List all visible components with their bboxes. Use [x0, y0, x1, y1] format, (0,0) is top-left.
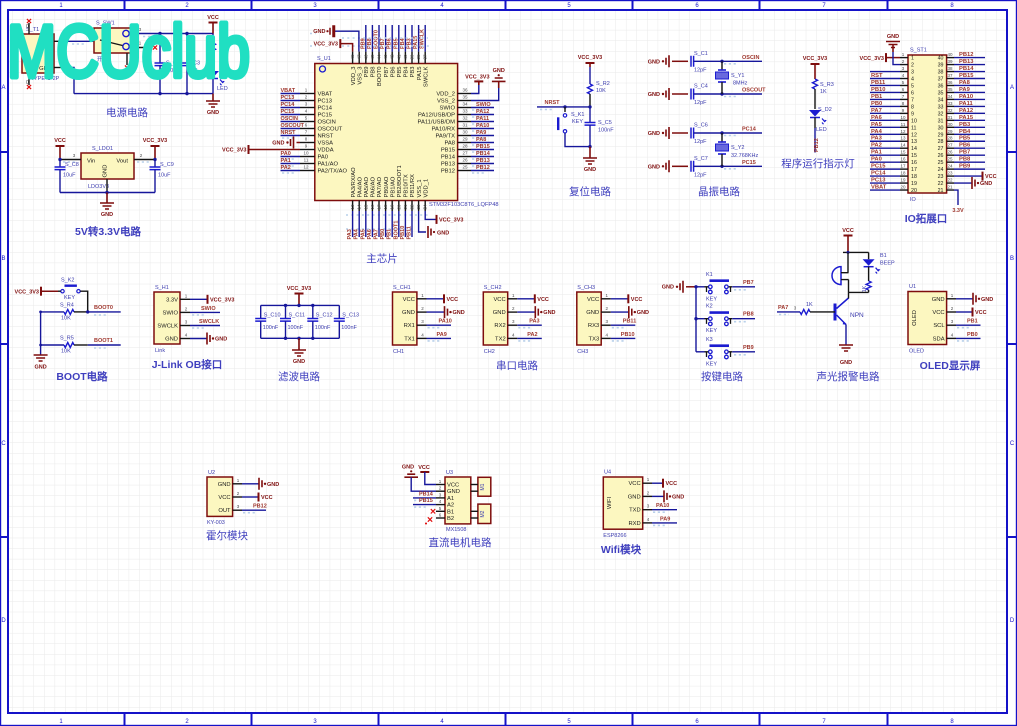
- svg-text:霍尔模块: 霍尔模块: [206, 529, 248, 542]
- svg-text:29: 29: [947, 129, 953, 134]
- svg-text:37: 37: [947, 73, 953, 78]
- wire net PB15: [413, 504, 436, 506]
- svg-text:B1: B1: [447, 509, 454, 515]
- U1 pin 44 BOOT0: [378, 52, 380, 64]
- svg-text:S_Y2: S_Y2: [731, 145, 744, 151]
- wire net PC14: [722, 132, 762, 134]
- svg-text:PB4: PB4: [959, 129, 971, 135]
- CH2 pin3 wire PA3: [517, 324, 542, 326]
- svg-text:晶振电路: 晶振电路: [698, 185, 740, 198]
- U1 pin 7 NRST: [300, 135, 315, 137]
- svg-text:8: 8: [911, 104, 914, 110]
- svg-text:PA3: PA3: [871, 136, 883, 142]
- svg-text:PB7: PB7: [959, 150, 970, 156]
- svg-text:VCC: VCC: [666, 481, 678, 487]
- U1 pin 40 PB4: [404, 52, 406, 64]
- svg-text:25: 25: [462, 165, 468, 170]
- resistor R5 10K: [41, 344, 64, 346]
- svg-text:PA0: PA0: [318, 155, 329, 161]
- svg-text:12pF: 12pF: [694, 100, 707, 106]
- U1 pin 37 SWCLK: [424, 52, 426, 64]
- svg-text:PB3: PB3: [959, 122, 971, 128]
- svg-text:PA8: PA8: [444, 141, 455, 147]
- U2 pin2 wire VCC: [242, 496, 258, 498]
- resistor R2: [589, 67, 591, 84]
- svg-text:12pF: 12pF: [694, 67, 707, 73]
- U1 pin 21 PB10/TX: [404, 201, 406, 212]
- H1 pin1 wire VCC_3V3: [190, 298, 207, 300]
- svg-text:39: 39: [938, 63, 944, 69]
- svg-text:KEY: KEY: [706, 328, 717, 334]
- U1 pin 41 PB5: [398, 52, 400, 64]
- svg-text:VCC_3V3: VCC_3V3: [314, 42, 338, 48]
- ST1 pin 33: [947, 105, 954, 107]
- svg-text:S_C12: S_C12: [316, 313, 333, 319]
- svg-text:GND: GND: [672, 494, 684, 500]
- capacitor S_C11 100nF: [285, 305, 287, 318]
- svg-text:GND: GND: [887, 34, 899, 40]
- svg-text:RX1: RX1: [404, 323, 415, 329]
- H1 pin3 wire SWCLK: [190, 325, 220, 327]
- svg-text:45: 45: [370, 54, 375, 60]
- svg-text:1K: 1K: [806, 302, 813, 308]
- svg-text:LDO3V3: LDO3V3: [88, 184, 109, 190]
- svg-text:17: 17: [377, 204, 382, 210]
- capacitor C5: [589, 107, 591, 123]
- svg-text:100nF: 100nF: [263, 325, 279, 331]
- svg-text:按键电路: 按键电路: [701, 370, 743, 383]
- svg-text:OUT: OUT: [218, 508, 231, 514]
- svg-text:1K: 1K: [820, 89, 827, 95]
- svg-text:17: 17: [900, 164, 906, 169]
- svg-text:PB11: PB11: [623, 319, 636, 325]
- svg-text:PA3: PA3: [529, 319, 539, 325]
- svg-text:PA0: PA0: [871, 157, 882, 163]
- ST1 pin 26: [947, 154, 954, 156]
- svg-text:复位电路: 复位电路: [569, 185, 611, 198]
- svg-text:Wifi模块: Wifi模块: [601, 543, 642, 556]
- svg-text:OSCOUT: OSCOUT: [318, 127, 343, 133]
- U1 pin 39 PB3: [411, 52, 413, 64]
- svg-text:PB6: PB6: [387, 38, 393, 49]
- U1 pin 36 VDD_2: [458, 93, 471, 95]
- ST1 pin 20: [900, 189, 908, 191]
- svg-text:44: 44: [377, 54, 382, 60]
- wire net PB9: [732, 351, 755, 353]
- svg-text:10: 10: [303, 151, 309, 156]
- svg-text:PA2: PA2: [871, 143, 882, 149]
- svg-text:RX2: RX2: [494, 323, 505, 329]
- svg-text:PA5/AO: PA5/AO: [364, 176, 370, 197]
- svg-text:VBAT: VBAT: [281, 88, 296, 94]
- svg-text:KEY: KEY: [706, 296, 717, 302]
- svg-text:32.768KHz: 32.768KHz: [731, 153, 758, 159]
- svg-text:VCC: VCC: [403, 297, 415, 303]
- ST1 pin 8: [900, 105, 908, 107]
- svg-text:PA5: PA5: [871, 122, 883, 128]
- svg-text:28: 28: [947, 136, 953, 141]
- svg-text:B: B: [1, 256, 5, 262]
- svg-text:GND: GND: [402, 310, 415, 316]
- CH1 pin2 wire GND: [427, 311, 445, 313]
- svg-text:PA11: PA11: [959, 101, 974, 107]
- svg-text:39: 39: [947, 59, 953, 64]
- svg-text:4: 4: [911, 77, 914, 83]
- module U1 OLED body: [908, 292, 947, 345]
- svg-text:主芯片: 主芯片: [366, 252, 398, 265]
- CH2 pin1 wire VCC: [517, 298, 534, 300]
- svg-text:32: 32: [462, 116, 468, 121]
- wire K1 to C5 bottom: [565, 133, 590, 147]
- U1 pin 48 VDD_3: [352, 52, 354, 64]
- ST1 pin 11: [900, 126, 908, 128]
- svg-text:KEY: KEY: [64, 295, 75, 301]
- OLED pin3 wire PB1: [956, 324, 981, 326]
- H1 pin 3 SWCLK: [180, 325, 190, 327]
- U1 pin 24 VDD_1: [424, 201, 426, 212]
- module U2 body: [207, 477, 233, 516]
- svg-text:PB8: PB8: [959, 157, 971, 163]
- svg-text:GND: GND: [453, 310, 465, 316]
- svg-text:SCL: SCL: [933, 323, 945, 329]
- svg-text:NPN: NPN: [850, 312, 864, 319]
- svg-text:GND: GND: [215, 337, 227, 343]
- U1 pin 47 VSS_3: [358, 52, 360, 64]
- svg-text:SWIO: SWIO: [476, 102, 491, 108]
- svg-text:PC14: PC14: [318, 106, 333, 112]
- CH2 pin 4 TX2: [508, 337, 518, 339]
- svg-text:PB1: PB1: [387, 229, 393, 240]
- svg-text:A: A: [1010, 85, 1014, 91]
- power GND top of ST1: [886, 42, 900, 48]
- svg-text:OLED: OLED: [909, 349, 924, 355]
- svg-text:PA2/TX/AO: PA2/TX/AO: [318, 169, 348, 175]
- svg-text:S_C1: S_C1: [694, 51, 708, 57]
- ST1 pin21 3.3V wire: [954, 190, 958, 205]
- ST1 pin 36: [947, 84, 954, 86]
- svg-text:VCC_3V3: VCC_3V3: [222, 148, 246, 154]
- U1 pin 45 PB8: [371, 52, 373, 64]
- svg-text:24: 24: [938, 167, 944, 173]
- power VCC_3V3 below U1: [436, 215, 438, 224]
- svg-text:PB15: PB15: [419, 498, 433, 504]
- svg-text:S_C13: S_C13: [342, 313, 359, 319]
- svg-text:PA10: PA10: [656, 503, 669, 509]
- svg-text:VCC: VCC: [54, 138, 66, 144]
- svg-text:GND: GND: [493, 310, 506, 316]
- svg-text:VBAT: VBAT: [318, 92, 333, 98]
- wire U1 VDD_1 to VCC_3V3: [425, 211, 436, 219]
- svg-text:PA8: PA8: [959, 80, 971, 86]
- svg-text:VDD_2: VDD_2: [436, 92, 455, 98]
- ST1 pin 29: [947, 133, 954, 135]
- svg-text:PA3: PA3: [347, 229, 353, 239]
- svg-text:程序运行指示灯: 程序运行指示灯: [781, 157, 855, 170]
- svg-text:S_R2: S_R2: [596, 81, 610, 87]
- svg-text:48: 48: [350, 54, 355, 60]
- svg-text:CH3: CH3: [577, 349, 588, 355]
- svg-text:GND: GND: [313, 29, 325, 35]
- svg-text:PB4: PB4: [404, 66, 410, 78]
- svg-text:100nF: 100nF: [315, 325, 331, 331]
- filter GND: [298, 338, 300, 350]
- svg-text:PB1: PB1: [967, 319, 978, 325]
- svg-text:39: 39: [410, 54, 415, 60]
- svg-text:12pF: 12pF: [694, 139, 707, 145]
- U1 pin 25 PB12: [458, 170, 471, 172]
- svg-text:PA12: PA12: [476, 109, 489, 115]
- svg-text:VCC: VCC: [628, 481, 640, 487]
- svg-text:PA5: PA5: [360, 229, 366, 239]
- svg-text:U4: U4: [604, 470, 611, 476]
- svg-text:PB8: PB8: [371, 67, 377, 78]
- header H1 body: [154, 292, 180, 344]
- ST1 pin 22: [947, 182, 954, 184]
- H1 pin 1 3.3V: [180, 298, 190, 300]
- svg-text:27: 27: [462, 151, 468, 156]
- svg-text:S_C6: S_C6: [694, 123, 708, 129]
- capacitor C8: [59, 160, 61, 168]
- svg-text:VDD_1: VDD_1: [423, 179, 429, 198]
- svg-text:31: 31: [947, 115, 953, 120]
- crystal Y1 8MHz: [721, 61, 723, 70]
- svg-text:PA9: PA9: [476, 130, 486, 136]
- U4 pin 1 VCC: [643, 482, 652, 484]
- svg-text:PC15: PC15: [318, 113, 333, 119]
- svg-text:PC15: PC15: [742, 160, 756, 166]
- ST1 pin 21: [947, 189, 954, 191]
- U1 pin 3 PC14: [300, 107, 315, 109]
- alarm top wire: [843, 251, 869, 253]
- U1 pin 11 PA1/AO: [300, 163, 315, 165]
- svg-text:PA2: PA2: [281, 165, 291, 171]
- bottom rail wire: [74, 93, 213, 95]
- ST1 pin 32: [947, 112, 954, 114]
- svg-text:GND: GND: [493, 68, 505, 74]
- svg-text:29: 29: [462, 137, 468, 142]
- svg-text:SWCLK: SWCLK: [199, 319, 219, 325]
- U3 pin 4 A2: [436, 504, 445, 506]
- svg-text:S_R4: S_R4: [60, 303, 74, 309]
- wire net BOOT1: [88, 344, 121, 346]
- svg-text:PB3: PB3: [407, 38, 413, 49]
- svg-text:PB7: PB7: [384, 67, 390, 78]
- svg-text:D: D: [1010, 618, 1015, 624]
- svg-text:D: D: [1, 618, 6, 624]
- svg-text:GND: GND: [272, 141, 284, 147]
- svg-text:LED: LED: [816, 127, 827, 133]
- svg-text:VCC: VCC: [418, 465, 430, 471]
- U1 pin 14 PA4/AO: [358, 201, 360, 212]
- T1 shield pin stub top: [28, 23, 30, 34]
- svg-text:PB5: PB5: [397, 67, 403, 78]
- ST1 pin 18: [900, 175, 908, 177]
- power GND below U1: [428, 226, 431, 238]
- svg-text:PB11: PB11: [407, 226, 413, 239]
- U4 pin 2 GND: [643, 495, 652, 497]
- U3 pin 6 B2: [436, 517, 445, 519]
- ST1 pin 14: [900, 147, 908, 149]
- U1 pin 28 PB15: [458, 149, 471, 151]
- svg-text:滤波电路: 滤波电路: [278, 370, 320, 383]
- svg-text:GND: GND: [207, 110, 219, 116]
- U1 pin 15 PA5/AO: [365, 201, 367, 212]
- capacitor C2: [159, 34, 161, 64]
- ST1 pin 13: [900, 140, 908, 142]
- svg-text:VCC: VCC: [447, 297, 459, 303]
- keys GND rail: [695, 287, 697, 352]
- module U3 body: [445, 477, 471, 524]
- U4 pin3 wire PA10: [652, 509, 677, 511]
- capacitor S_C6 12pF: [691, 128, 694, 139]
- svg-text:VCC: VCC: [447, 483, 459, 489]
- svg-text:S_Y1: S_Y1: [731, 73, 744, 79]
- svg-text:47: 47: [357, 54, 362, 60]
- svg-text:10uF: 10uF: [158, 173, 171, 179]
- svg-text:13: 13: [900, 136, 906, 141]
- svg-text:BOOT0: BOOT0: [94, 305, 113, 311]
- svg-text:PB12: PB12: [441, 169, 455, 175]
- svg-text:B2: B2: [447, 516, 454, 522]
- svg-text:23: 23: [947, 171, 953, 176]
- svg-text:GND: GND: [637, 310, 649, 316]
- svg-text:GND: GND: [293, 359, 305, 365]
- svg-text:PC15: PC15: [281, 109, 295, 115]
- power circuit GND: [212, 94, 214, 101]
- svg-text:GND: GND: [648, 59, 660, 65]
- svg-text:12: 12: [303, 165, 309, 170]
- svg-text:VSSA: VSSA: [318, 141, 334, 147]
- svg-text:OSCIN: OSCIN: [318, 120, 336, 126]
- ST1 pin 3: [900, 71, 908, 73]
- crystal Y2 32.768KHz: [721, 133, 723, 142]
- wires U3 to M1: [471, 484, 478, 486]
- svg-text:MX1508: MX1508: [446, 527, 467, 533]
- H1 pin2 wire SWIO: [190, 311, 220, 313]
- svg-text:BOOT0: BOOT0: [377, 67, 383, 87]
- U1 pin 2 PC13: [300, 100, 315, 102]
- wire emitter to GND: [845, 325, 847, 346]
- svg-text:VCC_3V3: VCC_3V3: [860, 56, 884, 62]
- svg-text:36: 36: [938, 83, 944, 89]
- ST1 pin 17: [900, 168, 908, 170]
- ST1 pin 19: [900, 182, 908, 184]
- U1 pin 32 PA11/USB/DM: [458, 121, 471, 123]
- CH2 pin 3 RX2: [508, 324, 518, 326]
- svg-text:37: 37: [938, 77, 944, 83]
- svg-text:6: 6: [911, 90, 914, 96]
- svg-text:PB3: PB3: [410, 67, 416, 78]
- svg-text:GND: GND: [662, 285, 674, 291]
- motor connector M1: [478, 477, 491, 496]
- svg-text:A: A: [1, 85, 5, 91]
- ST1 pin 4: [900, 78, 908, 80]
- svg-text:37: 37: [423, 54, 428, 60]
- CH3 pin 4 TX3: [601, 337, 611, 339]
- svg-text:VBAT: VBAT: [871, 185, 887, 191]
- U1 pin 9 VDDA: [300, 149, 315, 151]
- U3 pin 3 A1: [436, 497, 445, 499]
- motor connector M2: [478, 504, 491, 523]
- CH2 pin 2 GND: [508, 311, 518, 313]
- svg-text:38: 38: [947, 66, 953, 71]
- boot GND: [40, 345, 42, 355]
- svg-text:VCC: VCC: [975, 310, 987, 316]
- svg-text:TXD: TXD: [629, 508, 641, 514]
- U4 pin 4 RXD: [643, 522, 652, 524]
- svg-text:14: 14: [357, 204, 362, 210]
- svg-text:5: 5: [911, 83, 914, 89]
- U1 pin 29 PA8: [458, 142, 471, 144]
- svg-text:VCC: VCC: [493, 297, 505, 303]
- svg-text:5V转3.3V电路: 5V转3.3V电路: [75, 225, 141, 238]
- svg-text:28: 28: [462, 144, 468, 149]
- svg-text:PC14: PC14: [742, 127, 757, 133]
- svg-text:PA1: PA1: [281, 158, 291, 164]
- svg-text:PB12: PB12: [476, 165, 490, 171]
- svg-text:PB0/AO: PB0/AO: [384, 176, 390, 197]
- svg-text:33: 33: [938, 104, 944, 110]
- svg-text:PB0: PB0: [967, 332, 978, 338]
- svg-text:GND: GND: [980, 181, 992, 187]
- svg-text:28: 28: [938, 139, 944, 145]
- reset GND: [589, 147, 591, 158]
- svg-text:GND: GND: [648, 92, 660, 98]
- LDO GND symbol: [106, 193, 108, 204]
- wire net BOOT0: [88, 311, 121, 313]
- U1 pin 22 PB11/RX: [411, 201, 413, 212]
- ST1 pin 9: [900, 112, 908, 114]
- svg-text:GND: GND: [840, 360, 852, 366]
- svg-text:10K: 10K: [61, 349, 71, 355]
- wire U3 VCC: [425, 472, 436, 485]
- header S_CH3 body: [577, 292, 601, 345]
- ST1 pin 12: [900, 133, 908, 135]
- wire buzzer bottom down: [848, 280, 850, 293]
- svg-text:GND: GND: [584, 167, 596, 173]
- svg-text:SWIO: SWIO: [201, 306, 216, 312]
- svg-text:PB2/BOOT1: PB2/BOOT1: [397, 165, 403, 197]
- ST1 pin 30: [947, 126, 954, 128]
- svg-text:GND: GND: [101, 212, 113, 218]
- svg-text:22: 22: [947, 178, 953, 183]
- svg-text:CH2: CH2: [484, 349, 495, 355]
- svg-text:PB9: PB9: [959, 164, 971, 170]
- svg-text:MCUclub: MCUclub: [7, 10, 250, 93]
- svg-text:SWIO: SWIO: [163, 310, 179, 316]
- svg-text:S_K2: S_K2: [61, 278, 74, 284]
- svg-text:S_R3: S_R3: [820, 82, 834, 88]
- svg-text:NRST: NRST: [281, 130, 297, 136]
- ST1 pin 24: [947, 168, 954, 170]
- CH3 pin1 wire VCC: [611, 298, 628, 300]
- svg-text:PA8: PA8: [476, 137, 486, 143]
- ST1 pin 2: [900, 64, 908, 66]
- svg-text:PB6: PB6: [959, 143, 971, 149]
- svg-text:15: 15: [900, 150, 906, 155]
- svg-text:19: 19: [911, 181, 917, 187]
- header S_CH1 body: [393, 292, 417, 345]
- svg-text:PA3/RX/AO: PA3/RX/AO: [351, 167, 357, 198]
- svg-text:PB7: PB7: [743, 280, 754, 286]
- svg-text:串口电路: 串口电路: [496, 359, 538, 372]
- svg-text:VCC_3V3: VCC_3V3: [210, 297, 234, 303]
- LDO1 GND pin wire: [106, 179, 108, 193]
- ST1 pin 34: [947, 98, 954, 100]
- svg-text:PB11: PB11: [871, 80, 886, 86]
- ST1 pin 7: [900, 98, 908, 100]
- svg-text:PB5: PB5: [393, 38, 399, 49]
